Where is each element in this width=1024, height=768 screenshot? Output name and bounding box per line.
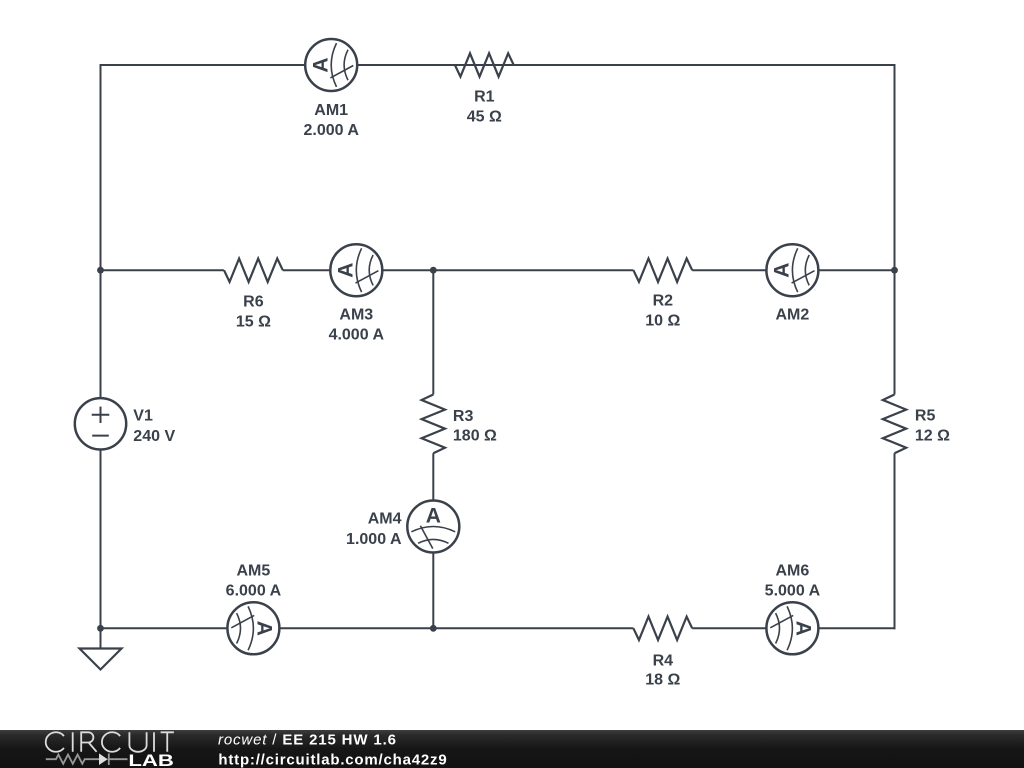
voltage source V1 — [75, 398, 126, 449]
svg-text:A: A — [334, 263, 357, 278]
svg-text:R1: R1 — [474, 89, 495, 106]
label AM4 — [346, 510, 402, 548]
svg-text:2.000 A: 2.000 A — [303, 122, 359, 139]
resistor R1 — [455, 53, 514, 76]
wire top horizontal — [100, 64, 896, 66]
svg-text:180 Ω: 180 Ω — [453, 428, 497, 445]
svg-text:AM5: AM5 — [237, 562, 271, 579]
footer bar — [0, 730, 1024, 768]
label R1 — [467, 89, 502, 126]
label R2 — [645, 293, 680, 330]
node A left-middle junction — [97, 267, 104, 274]
svg-text:V1: V1 — [133, 407, 153, 424]
node E center-bottom junction — [430, 625, 437, 632]
svg-text:R5: R5 — [915, 407, 936, 424]
svg-text:A: A — [771, 263, 794, 278]
resistor R6 — [224, 259, 283, 282]
ammeter AM6 — [766, 602, 818, 654]
svg-text:A: A — [426, 505, 441, 528]
svg-text:A: A — [791, 621, 814, 636]
wire right vertical lower segment — [894, 453, 896, 629]
wire right vertical upper segment — [894, 64, 896, 395]
wire middle horizontal left segment — [101, 269, 224, 271]
svg-text:AM4: AM4 — [368, 510, 402, 527]
svg-text:A: A — [252, 621, 275, 636]
resistor R5 — [883, 395, 906, 454]
label AM5 — [226, 562, 282, 599]
svg-text:18 Ω: 18 Ω — [645, 672, 680, 689]
wire bottom horizontal left segment — [101, 627, 634, 629]
label R4 — [645, 653, 680, 689]
svg-text:12 Ω: 12 Ω — [915, 428, 950, 445]
node D ground junction — [97, 625, 104, 632]
svg-text:15 Ω: 15 Ω — [236, 313, 271, 330]
svg-text:R3: R3 — [453, 408, 474, 425]
svg-text:AM2: AM2 — [776, 307, 810, 324]
ammeter AM1 — [305, 39, 357, 91]
svg-text:R6: R6 — [243, 293, 264, 310]
svg-text:6.000 A: 6.000 A — [226, 582, 282, 599]
svg-text:AM1: AM1 — [314, 102, 348, 119]
node C right-middle junction — [891, 267, 898, 274]
wire left vertical — [100, 64, 102, 628]
wire middle horizontal center segment — [283, 269, 634, 271]
label AM6 — [765, 563, 821, 600]
footer logo zigzag diode — [46, 753, 128, 765]
label V1 — [133, 407, 175, 444]
label R5 — [915, 407, 950, 444]
ammeter AM2 — [766, 244, 818, 296]
svg-text:http://circuitlab.com/cha42z9: http://circuitlab.com/cha42z9 — [218, 751, 447, 768]
ammeter AM3 — [330, 244, 382, 296]
ammeter AM4 — [407, 501, 459, 553]
ammeter AM5 — [227, 602, 279, 654]
resistor R3 — [422, 395, 445, 454]
label AM1 — [303, 102, 359, 139]
footer logo CIRCUIT — [46, 732, 174, 752]
svg-text:1.000 A: 1.000 A — [346, 531, 402, 548]
ground — [80, 628, 122, 669]
resistor R4 — [633, 617, 692, 640]
node B center-middle junction — [430, 267, 437, 274]
label R3 — [453, 408, 497, 445]
label AM2 — [776, 307, 810, 324]
label R6 — [236, 293, 271, 330]
svg-text:R2: R2 — [653, 293, 674, 310]
svg-text:AM3: AM3 — [339, 306, 373, 323]
svg-text:R4: R4 — [653, 653, 674, 670]
resistor R2 — [633, 259, 692, 282]
svg-text:rocwet / EE 215 HW 1.6: rocwet / EE 215 HW 1.6 — [218, 732, 397, 749]
wire middle vertical upper segment — [432, 270, 434, 394]
svg-text:10 Ω: 10 Ω — [645, 313, 680, 330]
label AM3 — [329, 306, 385, 343]
wire middle horizontal right segment — [692, 269, 894, 271]
svg-text:AM6: AM6 — [776, 563, 810, 580]
svg-text:A: A — [309, 57, 332, 72]
svg-text:240 V: 240 V — [133, 428, 175, 445]
wire bottom horizontal right segment — [692, 627, 895, 629]
svg-text:45 Ω: 45 Ω — [467, 109, 502, 126]
svg-text:LAB: LAB — [128, 751, 174, 768]
svg-text:5.000 A: 5.000 A — [765, 583, 821, 600]
svg-text:4.000 A: 4.000 A — [329, 326, 385, 343]
wire middle vertical lower segment — [432, 453, 434, 628]
